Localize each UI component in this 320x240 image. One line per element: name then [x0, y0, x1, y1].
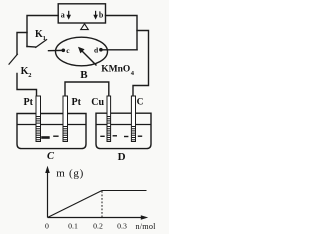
svg-text:m (g): m (g) — [56, 168, 84, 180]
svg-text:0.2: 0.2 — [93, 221, 103, 230]
svg-text:2: 2 — [28, 72, 31, 79]
svg-text:Cu: Cu — [91, 97, 104, 108]
svg-text:4: 4 — [131, 70, 135, 77]
svg-text:c: c — [66, 46, 70, 55]
svg-text:a: a — [61, 10, 65, 19]
svg-text:KMnO: KMnO — [101, 65, 130, 75]
svg-text:C: C — [47, 151, 55, 162]
svg-text:C: C — [137, 97, 144, 107]
svg-text:Pt: Pt — [24, 97, 34, 108]
svg-text:d: d — [94, 45, 99, 54]
svg-text:0.3: 0.3 — [117, 221, 127, 230]
svg-text:b: b — [99, 11, 104, 20]
svg-text:0: 0 — [45, 221, 49, 230]
svg-text:n/mol: n/mol — [136, 222, 157, 231]
svg-text:B: B — [80, 69, 88, 81]
svg-text:0.1: 0.1 — [68, 221, 78, 230]
svg-text:Pt: Pt — [72, 97, 82, 108]
svg-text:1: 1 — [43, 35, 46, 42]
svg-text:D: D — [118, 151, 126, 163]
